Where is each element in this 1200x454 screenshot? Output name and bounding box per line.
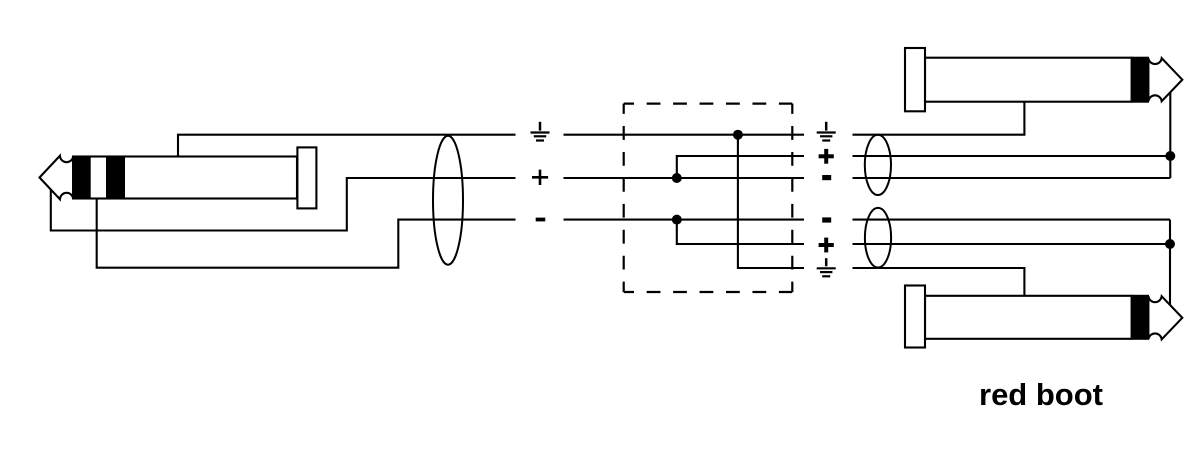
svg-text:red boot: red boot (979, 377, 1103, 412)
